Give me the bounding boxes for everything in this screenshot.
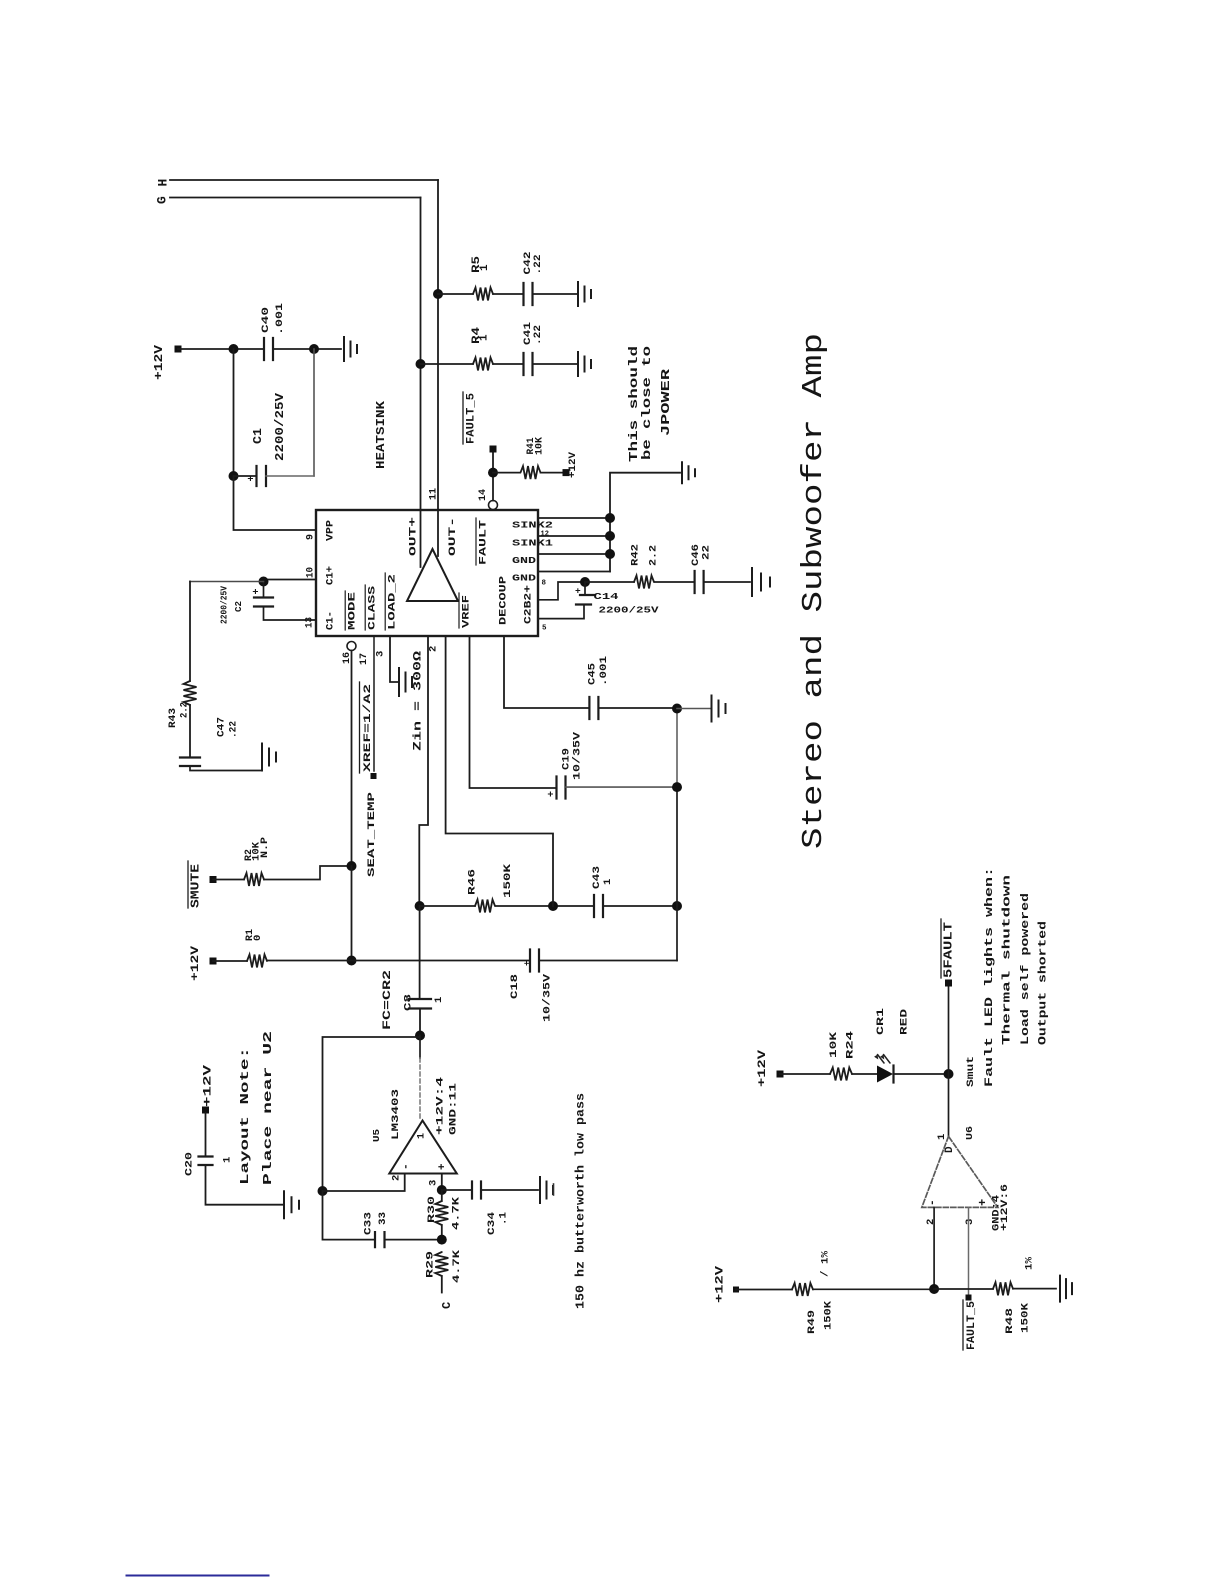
wire to C34 — [442, 1189, 538, 1191]
terminal FAULT_5 — [490, 446, 497, 453]
wire node to U6 output apex — [948, 1074, 950, 1136]
svg-text:+12V: +12V — [190, 945, 202, 981]
svg-text:C2: C2 — [233, 601, 244, 612]
wire H net from connector — [170, 179, 438, 181]
wire pin 17 to SEAT_TEMP terminal — [373, 636, 375, 771]
terminal SMUTE — [210, 876, 217, 883]
svg-text:JPOWER: JPOWER — [660, 369, 673, 436]
U2 right side pin wires SINK2 SINK1 GND GND — [538, 518, 610, 572]
svg-text:+: + — [976, 1199, 990, 1206]
node feedback / inverting input — [318, 1186, 328, 1196]
node C1 plus junction — [229, 471, 239, 481]
wire U6 pin3 down to FAULT_5 — [968, 1207, 970, 1295]
wire R48 row — [934, 1288, 1056, 1290]
wire SEAT_TEMP net down to R1 rail — [351, 866, 353, 961]
node pin2 / R46 — [415, 901, 425, 911]
svg-text:be close to: be close to — [641, 346, 654, 460]
svg-text:1: 1 — [602, 879, 614, 885]
terminal FAULT_5 bottom — [966, 1295, 972, 1301]
svg-text:C40: C40 — [260, 307, 272, 333]
svg-text:+12V: +12V — [714, 1265, 726, 1303]
wire R41 row — [493, 472, 563, 474]
svg-text:SEAT_TEMP: SEAT_TEMP — [367, 792, 378, 877]
capacitor C34 .1 — [472, 1182, 481, 1199]
capacitor C18 10/35V electrolytic — [530, 950, 539, 972]
svg-text:C20: C20 — [183, 1152, 195, 1176]
svg-text:FC=CR2: FC=CR2 — [382, 970, 394, 1030]
wire C20 to ground — [206, 1166, 284, 1205]
ground R5/C42 row — [578, 282, 591, 306]
ground R4/C41 row — [578, 352, 591, 376]
node C43 right / C18 riser — [672, 901, 682, 911]
wire C2 net to R43 — [190, 581, 264, 583]
U2 internal amplifier triangle — [407, 549, 458, 601]
svg-text:.001: .001 — [274, 303, 286, 335]
svg-text:Output shorted: Output shorted — [1037, 921, 1049, 1045]
wire C40 right down to C1 right — [313, 349, 315, 476]
svg-text:C8: C8 — [402, 994, 414, 1011]
svg-text:Smut: Smut — [966, 1056, 977, 1087]
svg-text:This should: This should — [628, 346, 641, 462]
svg-text:+12V: +12V — [153, 345, 166, 380]
capacitor C1 2200/25V electrolytic — [234, 475, 257, 477]
+12V rail top left — [175, 346, 182, 353]
svg-text:22: 22 — [700, 545, 712, 560]
wire +12V to C40 — [178, 348, 341, 350]
wire riser C18/C43/C19/C45 — [676, 787, 678, 960]
svg-text:10K: 10K — [533, 436, 545, 455]
svg-text:GND: GND — [512, 556, 537, 566]
wire LED to node — [894, 1073, 949, 1075]
wire G net from connector — [170, 197, 421, 199]
wire pin 3 to ground — [390, 636, 398, 682]
svg-text:4.7K: 4.7K — [450, 1196, 462, 1230]
wire +12V rail to pin 9 of U2 — [234, 476, 317, 530]
node opamp output / feedback — [415, 1031, 425, 1041]
capacitor C14 2200/25V electrolytic — [538, 582, 585, 619]
svg-text:3: 3 — [374, 651, 386, 657]
capacitor C41 — [524, 353, 533, 375]
capacitor C20 1 — [199, 1157, 213, 1166]
svg-text:VREF: VREF — [462, 595, 473, 628]
resistor R43 2.2 — [184, 681, 197, 705]
svg-text:150K: 150K — [822, 1300, 834, 1330]
node C14/R42 — [580, 577, 590, 587]
wire LED row — [780, 1073, 877, 1075]
wire feedback to pin 2 of U5 — [323, 1174, 405, 1192]
wire R49 row — [736, 1288, 934, 1290]
wire OUT- into triangle — [437, 510, 439, 556]
wire C47 to ground — [190, 766, 261, 771]
LED CR1 RED — [877, 1066, 893, 1083]
wire SMUTE row through R2 — [213, 866, 352, 880]
wire C33 to R29/R30 node — [385, 1239, 442, 1241]
wire pin2 net down to C8 — [419, 906, 421, 999]
svg-text:/ 1%: / 1% — [819, 1250, 831, 1277]
IC U2 box — [316, 510, 538, 636]
svg-text:11: 11 — [427, 488, 439, 500]
svg-text:FAULT_5: FAULT_5 — [966, 1301, 978, 1350]
wire R46 row — [420, 905, 677, 907]
svg-text:.001: .001 — [598, 656, 610, 686]
svg-text:Load self powered: Load self powered — [1020, 893, 1032, 1045]
capacitor C40 .001 — [264, 338, 273, 360]
svg-text:G: G — [155, 196, 170, 204]
wire +12V rail down to C1 — [233, 349, 235, 476]
svg-text:17: 17 — [358, 653, 370, 665]
wire to ground C45 row — [677, 708, 710, 710]
wire pin 2 down with jog — [419, 636, 428, 906]
U2 pin 14 bubble — [489, 501, 498, 510]
svg-text:OUT-: OUT- — [448, 517, 459, 556]
svg-text:1: 1 — [417, 1133, 428, 1139]
svg-text:2200/25V: 2200/25V — [599, 604, 659, 615]
svg-text:150 hz butterworth low pass: 150 hz butterworth low pass — [575, 1093, 588, 1309]
footer blue line — [127, 1575, 269, 1577]
ground C47 — [262, 744, 276, 771]
svg-text:R24: R24 — [844, 1031, 856, 1059]
ground R42/C46 row — [752, 568, 770, 596]
svg-text:XREF=1/A2: XREF=1/A2 — [362, 684, 374, 772]
svg-text:2200/25V: 2200/25V — [274, 393, 287, 461]
svg-text:1: 1 — [478, 334, 490, 341]
wire FAULT net pin14 up — [492, 451, 494, 501]
svg-text:CLASS: CLASS — [368, 586, 379, 630]
svg-text:R30: R30 — [426, 1196, 438, 1223]
+12V terminal at R41 — [563, 469, 570, 476]
wire H vertical to U2 OUT- pin 11 — [437, 180, 439, 510]
node C40 right — [309, 344, 319, 354]
svg-text:C45: C45 — [586, 663, 598, 685]
svg-text:10/35V: 10/35V — [571, 731, 583, 780]
resistor R48 150K 1% — [993, 1282, 1013, 1295]
capacitor C19 10/35V electrolytic — [557, 777, 566, 799]
node FAULT/R41 — [488, 468, 498, 478]
resistor R29 4.7K — [435, 1252, 448, 1276]
resistor R5 — [473, 288, 493, 301]
svg-text:+: + — [252, 588, 263, 594]
svg-text:5FAULT: 5FAULT — [943, 922, 956, 978]
wire U5 pin3 down — [441, 1174, 443, 1191]
ground C34 — [540, 1177, 553, 1203]
svg-text:N.P: N.P — [259, 837, 271, 858]
ground JPOWER — [682, 462, 695, 483]
svg-text:.22: .22 — [227, 721, 239, 738]
svg-text:8: 8 — [542, 580, 547, 588]
svg-text:2: 2 — [427, 646, 439, 652]
ground pin3 MODE — [399, 668, 412, 696]
opamp U5 triangle — [389, 1121, 457, 1174]
svg-text:10: 10 — [306, 567, 317, 578]
svg-text:MODE: MODE — [348, 592, 359, 630]
wire C19 to riser node — [566, 786, 677, 788]
capacitor C45 .001 — [589, 697, 598, 719]
svg-text:+: + — [575, 586, 581, 597]
svg-text:CR1: CR1 — [875, 1008, 887, 1035]
svg-text:12: 12 — [541, 531, 549, 539]
svg-text:1: 1 — [936, 1134, 948, 1140]
wire R4 row — [421, 363, 578, 365]
svg-text:13: 13 — [305, 617, 316, 628]
resistor R46 150K — [475, 900, 495, 913]
svg-text:+12V: +12V — [757, 1049, 769, 1087]
svg-text:C18: C18 — [509, 974, 521, 999]
svg-text:LM3403: LM3403 — [390, 1089, 401, 1140]
wire R5 row — [438, 293, 577, 295]
svg-text:R49: R49 — [806, 1310, 818, 1334]
wire G vertical to U2 OUT+ — [420, 198, 422, 511]
svg-text:33: 33 — [377, 1212, 389, 1225]
svg-text:Layout Note:: Layout Note: — [238, 1047, 252, 1185]
svg-text:C47: C47 — [215, 717, 227, 737]
svg-text:RED: RED — [898, 1009, 910, 1035]
ground C40 — [344, 337, 357, 361]
svg-text:+: + — [523, 961, 533, 966]
svg-text:4.7K: 4.7K — [451, 1249, 463, 1283]
svg-text:1: 1 — [479, 264, 491, 271]
svg-text:Place near U2: Place near U2 — [261, 1031, 275, 1185]
wire +12V to C20 — [205, 1113, 207, 1157]
svg-text:SINK2: SINK2 — [512, 521, 553, 531]
node junction H / R5 row — [433, 289, 443, 299]
svg-text:14: 14 — [477, 489, 489, 501]
wire output node down to opamp U5 apex — [419, 1036, 421, 1059]
svg-text:HEATSINK: HEATSINK — [374, 400, 388, 469]
capacitor C2 2200/25V electrolytic — [263, 582, 265, 598]
svg-text:+: + — [437, 1163, 449, 1170]
svg-text:SMUTE: SMUTE — [190, 864, 203, 908]
svg-text:-: - — [927, 1199, 939, 1206]
capacitor C42 — [524, 283, 533, 305]
svg-text:R42: R42 — [629, 544, 641, 566]
svg-text:+: + — [247, 475, 258, 481]
svg-text:0: 0 — [252, 935, 264, 941]
svg-text:3: 3 — [964, 1219, 976, 1225]
svg-text:10/35V: 10/35V — [541, 973, 553, 1022]
svg-text:Fault LED lights when:: Fault LED lights when: — [984, 867, 996, 1087]
wire feedback left — [323, 1037, 421, 1191]
svg-text:FAULT: FAULT — [479, 520, 490, 565]
svg-text:.22: .22 — [532, 325, 544, 345]
node SINK riser dots — [605, 513, 615, 523]
node R1 rail — [347, 956, 357, 966]
svg-text:-: - — [400, 1163, 412, 1170]
node R46/C43/VREF — [548, 901, 558, 911]
wire OUT+ into triangle — [420, 510, 422, 567]
wire R1 rail — [213, 960, 677, 963]
svg-text:+12V: +12V — [567, 451, 579, 478]
resistor R4 — [473, 358, 493, 371]
ground C45 row — [712, 696, 726, 722]
node SEAT_TEMP/R2 — [347, 861, 357, 871]
svg-text:SINK1: SINK1 — [512, 539, 554, 549]
svg-text:150K: 150K — [502, 863, 514, 898]
svg-text:1: 1 — [433, 997, 445, 1003]
svg-text:C1-: C1- — [325, 611, 336, 630]
svg-text:2.2: 2.2 — [178, 702, 190, 718]
wire R43 to C47 — [189, 705, 191, 758]
svg-text:Stereo and Subwoofer Amp: Stereo and Subwoofer Amp — [797, 333, 830, 849]
wire DECOUP pin down to C19 row — [470, 636, 557, 788]
resistor R41 10K pullup — [521, 466, 541, 479]
wire pin 8 step to C14 node — [538, 582, 585, 600]
svg-text:U5: U5 — [371, 1129, 382, 1142]
wire R42 row — [585, 581, 750, 583]
svg-text:R48: R48 — [1004, 1308, 1016, 1334]
svg-text:GND:11: GND:11 — [448, 1083, 459, 1135]
node +12V/C40 left — [229, 344, 239, 354]
resistor R2 10K N.P. — [244, 873, 264, 886]
ground R48 — [1060, 1276, 1072, 1302]
svg-text:LOAD_2: LOAD_2 — [388, 574, 399, 630]
wire C45 to riser node — [599, 707, 677, 709]
svg-text:.1: .1 — [497, 1212, 509, 1225]
svg-text:C1+: C1+ — [325, 566, 336, 585]
capacitor C8 1 — [409, 999, 431, 1009]
svg-text:10K: 10K — [828, 1031, 840, 1058]
node C45/riser — [672, 704, 682, 714]
svg-text:C: C — [440, 1302, 454, 1309]
resistor R42 2.2 — [634, 576, 654, 589]
node C2 top — [259, 577, 269, 587]
node C19/riser — [672, 782, 682, 792]
stray mark — [553, 1184, 555, 1195]
wire U6 pin2 down to divider — [933, 1207, 935, 1289]
svg-text:C2B2+: C2B2+ — [524, 585, 535, 624]
svg-text:C1: C1 — [252, 428, 265, 444]
svg-text:+12V:4: +12V:4 — [435, 1077, 446, 1135]
capacitor C33 33 — [375, 1232, 385, 1247]
svg-text:D: D — [944, 1146, 956, 1153]
svg-text:150K: 150K — [1019, 1302, 1031, 1333]
wire C2B2+ pin down to C45 row — [504, 636, 589, 708]
node pin3 / C34 — [437, 1185, 447, 1195]
wire up to 5FAULT terminal — [948, 985, 950, 1074]
terminal SEAT_TEMP xref — [371, 773, 377, 779]
svg-text:+12V:6: +12V:6 — [999, 1184, 1010, 1231]
resistor R1 0 — [247, 955, 267, 968]
svg-text:.22: .22 — [532, 255, 544, 275]
svg-text:2200/25V: 2200/25V — [218, 586, 229, 624]
svg-text:R43: R43 — [167, 708, 179, 728]
svg-text:H: H — [156, 179, 171, 187]
svg-text:DECOUP: DECOUP — [499, 576, 510, 625]
ground C20 — [284, 1191, 299, 1218]
svg-text:1: 1 — [221, 1157, 233, 1163]
svg-text:2: 2 — [390, 1175, 402, 1181]
pin 10 stub wire — [264, 579, 317, 581]
capacitor C46 22 — [695, 571, 704, 593]
svg-text:U6: U6 — [964, 1126, 975, 1140]
svg-text:OUT+: OUT+ — [409, 517, 420, 556]
svg-text:5: 5 — [542, 625, 547, 633]
wire C8 to opamp output node — [419, 1009, 421, 1036]
node divider midpoint — [929, 1284, 939, 1294]
resistor R30 4.7K — [435, 1201, 448, 1225]
wire VREF net up and left to pin — [446, 636, 553, 906]
svg-text:C33: C33 — [362, 1212, 374, 1235]
svg-text:+: + — [547, 791, 558, 797]
svg-text:Zin = 300Ω: Zin = 300Ω — [412, 650, 424, 751]
svg-text:FAULT_5: FAULT_5 — [465, 393, 477, 444]
svg-text:C14: C14 — [594, 591, 619, 602]
node junction G / R4 row — [416, 359, 426, 369]
resistor R49 150K 1% — [792, 1283, 813, 1296]
svg-text:C34: C34 — [486, 1212, 498, 1235]
node fault output — [944, 1069, 954, 1079]
wire pin16 SEAT_TEMP net down — [351, 651, 353, 867]
opamp U6 triangle — [922, 1136, 998, 1207]
svg-text:2: 2 — [925, 1219, 937, 1225]
wire feedback down to C33 — [323, 1191, 376, 1240]
pin 16 bubble and label — [347, 642, 356, 651]
svg-text:2.2: 2.2 — [647, 545, 659, 566]
svg-text:R29: R29 — [424, 1251, 436, 1278]
node R30/R29/C33 — [437, 1235, 447, 1245]
svg-text:GND: GND — [512, 574, 537, 584]
capacitor C47 .22 — [180, 758, 200, 767]
svg-text:1%: 1% — [1023, 1256, 1035, 1270]
svg-text:Thermal shutdown: Thermal shutdown — [1001, 875, 1013, 1045]
resistor R24 10K — [830, 1068, 852, 1081]
svg-text:R46: R46 — [466, 869, 478, 895]
wire SINK riser — [610, 473, 680, 572]
svg-text:+12V: +12V — [202, 1064, 214, 1107]
svg-text:3: 3 — [427, 1180, 439, 1186]
capacitor C43 1 — [594, 895, 603, 917]
svg-text:VPP: VPP — [325, 520, 336, 541]
